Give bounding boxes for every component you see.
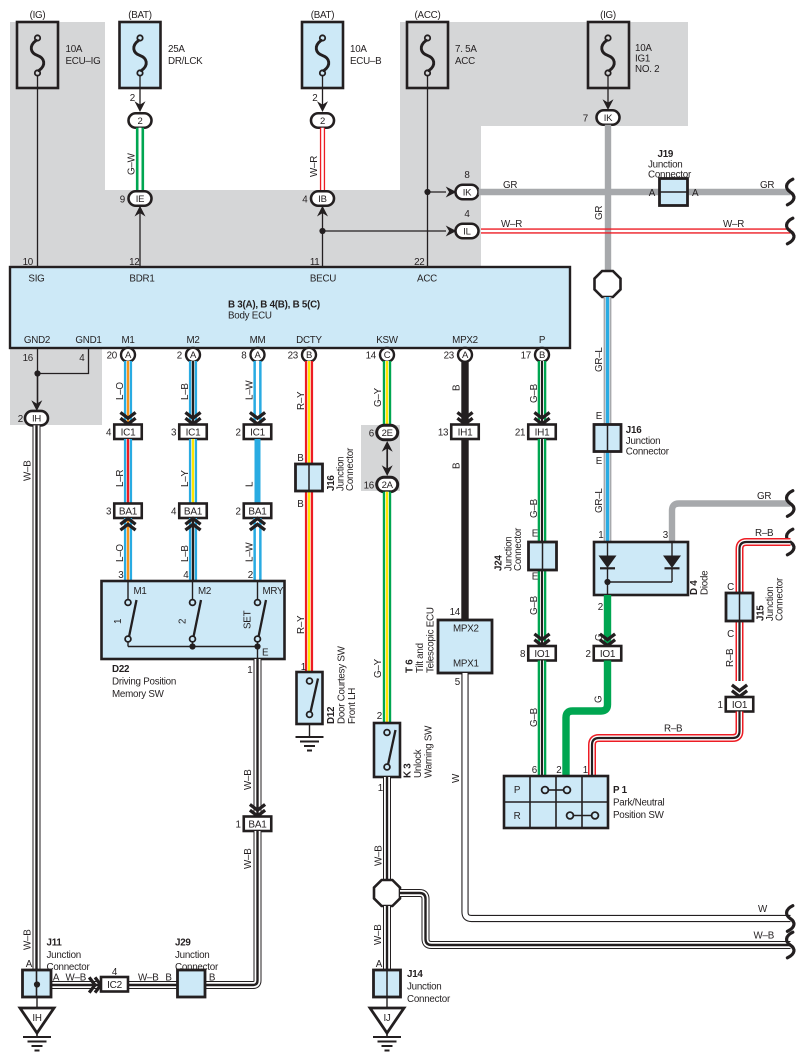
svg-text:A: A (692, 188, 699, 199)
svg-text:Diode: Diode (700, 570, 711, 595)
svg-text:B 3(A), B 4(B), B 5(C): B 3(A), B 4(B), B 5(C) (228, 300, 320, 311)
svg-text:G–Y: G–Y (373, 658, 384, 678)
svg-text:P 1: P 1 (613, 785, 628, 796)
svg-text:B: B (452, 384, 463, 391)
svg-text:ECU–IG: ECU–IG (66, 56, 101, 67)
svg-text:D22: D22 (112, 664, 130, 675)
svg-text:MPX1: MPX1 (453, 659, 479, 670)
svg-text:IC1: IC1 (186, 427, 202, 438)
svg-text:T 6: T 6 (405, 659, 416, 673)
svg-text:L–B: L–B (180, 383, 191, 400)
svg-text:G–W: G–W (127, 152, 138, 175)
svg-text:IC1: IC1 (121, 427, 137, 438)
svg-text:R–Y: R–Y (296, 391, 307, 410)
svg-text:Body ECU: Body ECU (228, 311, 272, 322)
svg-text:W–B: W–B (243, 848, 254, 869)
svg-text:A: A (649, 188, 656, 199)
svg-text:IG1: IG1 (635, 54, 650, 65)
svg-text:2: 2 (320, 116, 325, 127)
svg-text:C: C (727, 582, 734, 593)
svg-text:4: 4 (183, 570, 189, 581)
svg-text:ACC: ACC (455, 56, 475, 67)
svg-text:2: 2 (130, 93, 135, 104)
svg-text:Telescopic ECU: Telescopic ECU (426, 607, 437, 673)
svg-text:4: 4 (112, 967, 118, 978)
svg-text:GR: GR (594, 206, 605, 220)
svg-text:A: A (125, 350, 132, 361)
svg-text:L–O: L–O (115, 382, 126, 400)
svg-text:3: 3 (171, 427, 177, 438)
svg-text:IH1: IH1 (535, 427, 551, 438)
svg-text:8: 8 (520, 649, 526, 660)
svg-text:Junction: Junction (47, 950, 82, 961)
svg-text:B: B (452, 462, 463, 469)
svg-text:Memory SW: Memory SW (112, 689, 165, 700)
svg-text:W–B: W–B (66, 973, 87, 984)
svg-text:Junction: Junction (175, 950, 210, 961)
svg-text:L–W: L–W (245, 380, 256, 400)
svg-text:IH: IH (32, 414, 41, 425)
svg-text:9: 9 (120, 195, 125, 206)
svg-text:7: 7 (583, 114, 588, 125)
svg-text:DCTY: DCTY (296, 335, 322, 346)
svg-text:4: 4 (106, 427, 112, 438)
svg-text:5: 5 (455, 677, 461, 688)
svg-text:B: B (297, 453, 304, 464)
svg-text:A: A (376, 959, 383, 970)
svg-text:IO1: IO1 (534, 649, 550, 660)
svg-text:3: 3 (106, 506, 112, 517)
svg-text:BA1: BA1 (119, 506, 138, 517)
svg-text:21: 21 (515, 427, 525, 438)
svg-text:E: E (532, 529, 539, 540)
svg-text:R–B: R–B (725, 648, 736, 667)
svg-text:IE: IE (136, 194, 144, 205)
svg-text:BA1: BA1 (248, 506, 267, 517)
svg-text:R: R (514, 811, 521, 822)
svg-text:E: E (596, 456, 603, 467)
svg-text:L–W: L–W (245, 542, 256, 562)
svg-text:IB: IB (318, 194, 326, 205)
svg-text:W–B: W–B (374, 845, 385, 866)
svg-text:MM: MM (250, 335, 266, 346)
svg-text:1: 1 (718, 700, 723, 711)
svg-text:K 3: K 3 (403, 763, 414, 778)
svg-text:2: 2 (598, 602, 603, 613)
svg-text:1: 1 (247, 665, 252, 676)
svg-text:C: C (727, 629, 734, 640)
svg-text:J11: J11 (47, 938, 63, 949)
svg-text:R–B: R–B (755, 528, 774, 539)
svg-text:J14: J14 (407, 969, 423, 980)
svg-text:W–R: W–R (501, 219, 522, 230)
svg-text:L–O: L–O (115, 544, 126, 562)
svg-text:6: 6 (532, 765, 538, 776)
svg-text:IC2: IC2 (107, 980, 123, 991)
svg-text:IO1: IO1 (732, 700, 748, 711)
svg-text:IC1: IC1 (250, 427, 266, 438)
svg-text:Tilt and: Tilt and (415, 643, 426, 673)
svg-text:7. 5A: 7. 5A (455, 44, 477, 55)
svg-text:3: 3 (663, 530, 669, 541)
svg-text:8: 8 (464, 170, 470, 181)
svg-text:17: 17 (521, 351, 531, 362)
svg-text:Connector: Connector (345, 447, 356, 491)
svg-text:6: 6 (369, 429, 375, 440)
svg-text:2: 2 (18, 414, 23, 425)
svg-text:10A: 10A (350, 44, 367, 55)
svg-text:B: B (165, 973, 172, 984)
svg-text:P: P (539, 335, 546, 346)
svg-text:Park/Neutral: Park/Neutral (613, 798, 665, 809)
svg-text:GR–L: GR–L (594, 347, 605, 372)
svg-text:KSW: KSW (376, 335, 399, 346)
svg-text:14: 14 (366, 351, 377, 362)
svg-text:W–B: W–B (23, 929, 34, 950)
svg-text:GND2: GND2 (24, 335, 50, 346)
svg-text:1: 1 (113, 619, 124, 624)
svg-text:GR–L: GR–L (594, 488, 605, 513)
svg-text:M2: M2 (198, 586, 211, 597)
svg-text:E: E (596, 411, 603, 422)
svg-text:(ACC): (ACC) (415, 10, 441, 21)
svg-text:W–R: W–R (723, 219, 744, 230)
svg-text:4: 4 (464, 209, 470, 220)
svg-text:G–B: G–B (529, 707, 540, 727)
svg-text:2: 2 (586, 649, 591, 660)
svg-text:J16: J16 (626, 425, 642, 436)
svg-text:Connector: Connector (175, 962, 219, 973)
svg-text:4: 4 (171, 506, 177, 517)
svg-text:(BAT): (BAT) (128, 10, 152, 21)
svg-text:23: 23 (444, 351, 455, 362)
svg-text:MPX2: MPX2 (453, 624, 479, 635)
svg-text:GR: GR (503, 180, 517, 191)
svg-text:B: B (297, 499, 304, 510)
svg-text:GND1: GND1 (75, 335, 101, 346)
svg-text:W–B: W–B (373, 924, 384, 945)
svg-text:B: B (306, 350, 312, 361)
svg-text:1: 1 (236, 819, 241, 830)
svg-text:L–B: L–B (180, 545, 191, 562)
svg-text:MPX2: MPX2 (452, 335, 478, 346)
svg-text:BDR1: BDR1 (129, 274, 154, 285)
svg-text:1: 1 (598, 530, 603, 541)
svg-text:(BAT): (BAT) (311, 10, 335, 21)
svg-text:W–B: W–B (138, 973, 159, 984)
svg-text:A: A (53, 973, 60, 984)
svg-text:L: L (245, 481, 256, 487)
svg-text:DR/LCK: DR/LCK (168, 56, 203, 67)
svg-text:1: 1 (583, 765, 588, 776)
svg-text:G: G (594, 696, 605, 703)
svg-text:23: 23 (288, 351, 299, 362)
svg-text:Connector: Connector (47, 962, 91, 973)
svg-text:D 4: D 4 (689, 580, 700, 595)
svg-text:IL: IL (463, 226, 470, 237)
svg-text:2: 2 (556, 765, 561, 776)
svg-text:M1: M1 (134, 586, 147, 597)
svg-text:G–B: G–B (529, 498, 540, 518)
svg-text:25A: 25A (168, 44, 185, 55)
svg-text:A: A (254, 350, 261, 361)
svg-text:IO1: IO1 (600, 649, 616, 660)
svg-text:10A: 10A (66, 44, 83, 55)
svg-text:Unlock: Unlock (413, 749, 424, 778)
svg-text:SET: SET (243, 610, 254, 629)
svg-text:GR: GR (757, 491, 771, 502)
svg-text:2: 2 (137, 116, 142, 127)
svg-text:13: 13 (438, 427, 449, 438)
svg-text:W–B: W–B (754, 931, 775, 942)
svg-text:R–Y: R–Y (296, 615, 307, 634)
svg-text:P: P (514, 785, 521, 796)
svg-text:1: 1 (378, 783, 383, 794)
svg-text:Driving Position: Driving Position (112, 677, 176, 688)
svg-text:W–R: W–R (309, 156, 320, 177)
svg-text:ECU–B: ECU–B (350, 56, 382, 67)
svg-text:2: 2 (312, 93, 317, 104)
svg-text:Front LH: Front LH (347, 688, 358, 724)
svg-text:B: B (539, 350, 545, 361)
svg-text:W–B: W–B (243, 769, 254, 790)
svg-text:Connector: Connector (775, 577, 786, 621)
svg-text:2: 2 (377, 711, 382, 722)
svg-text:Position SW: Position SW (613, 810, 665, 821)
svg-text:4: 4 (302, 195, 308, 206)
svg-text:IH1: IH1 (458, 427, 474, 438)
svg-text:2: 2 (248, 570, 253, 581)
svg-text:G–B: G–B (529, 595, 540, 615)
svg-text:2: 2 (236, 506, 241, 517)
svg-text:MRY: MRY (263, 586, 285, 597)
svg-text:A: A (26, 959, 33, 970)
svg-text:SIG: SIG (28, 274, 44, 285)
svg-text:10A: 10A (635, 43, 652, 54)
svg-text:GR: GR (760, 180, 774, 191)
svg-text:W: W (758, 904, 768, 915)
svg-text:16: 16 (364, 481, 375, 492)
svg-text:IJ: IJ (383, 1013, 390, 1024)
svg-text:4: 4 (79, 353, 85, 364)
svg-text:20: 20 (107, 351, 118, 362)
svg-text:(IG): (IG) (600, 10, 616, 21)
svg-text:W–B: W–B (23, 460, 34, 481)
svg-text:M2: M2 (186, 335, 199, 346)
svg-text:G–B: G–B (529, 383, 540, 403)
svg-text:W: W (451, 773, 462, 783)
svg-text:2: 2 (177, 351, 182, 362)
svg-text:B: B (209, 973, 216, 984)
svg-text:Connector: Connector (626, 447, 670, 458)
svg-text:14: 14 (450, 607, 461, 618)
svg-text:ACC: ACC (417, 274, 437, 285)
svg-text:16: 16 (23, 353, 34, 364)
svg-text:2: 2 (236, 427, 241, 438)
svg-text:Connector: Connector (407, 994, 451, 1005)
svg-text:J29: J29 (175, 938, 191, 949)
svg-text:2A: 2A (382, 480, 394, 491)
svg-text:J19: J19 (658, 149, 674, 160)
svg-text:D12: D12 (326, 706, 337, 724)
svg-text:Junction: Junction (626, 436, 661, 447)
svg-text:Connector: Connector (648, 170, 692, 181)
svg-text:2: 2 (178, 619, 189, 624)
svg-text:BA1: BA1 (184, 506, 203, 517)
svg-text:IK: IK (463, 187, 472, 198)
svg-text:(IG): (IG) (30, 10, 46, 21)
svg-text:E: E (262, 648, 269, 659)
svg-text:Junction: Junction (407, 982, 442, 993)
svg-text:E: E (532, 572, 539, 583)
svg-text:BA1: BA1 (248, 819, 267, 830)
svg-text:C: C (384, 350, 391, 361)
svg-text:L–R: L–R (115, 470, 126, 487)
svg-text:IK: IK (604, 113, 613, 124)
svg-text:8: 8 (241, 351, 247, 362)
svg-text:Warning SW: Warning SW (424, 725, 435, 778)
svg-text:Connector: Connector (513, 527, 524, 571)
svg-text:BECU: BECU (310, 274, 336, 285)
svg-text:IH: IH (32, 1013, 41, 1024)
svg-text:G–Y: G–Y (373, 387, 384, 407)
svg-text:2E: 2E (382, 428, 393, 439)
svg-text:NO. 2: NO. 2 (635, 64, 659, 75)
svg-text:A: A (462, 350, 469, 361)
svg-text:R–B: R–B (664, 724, 683, 735)
svg-text:L–Y: L–Y (180, 470, 191, 487)
svg-text:10: 10 (23, 257, 34, 268)
svg-text:M1: M1 (121, 335, 134, 346)
svg-text:3: 3 (118, 570, 124, 581)
svg-text:Door Courtesy SW: Door Courtesy SW (337, 645, 348, 724)
svg-text:A: A (190, 350, 197, 361)
